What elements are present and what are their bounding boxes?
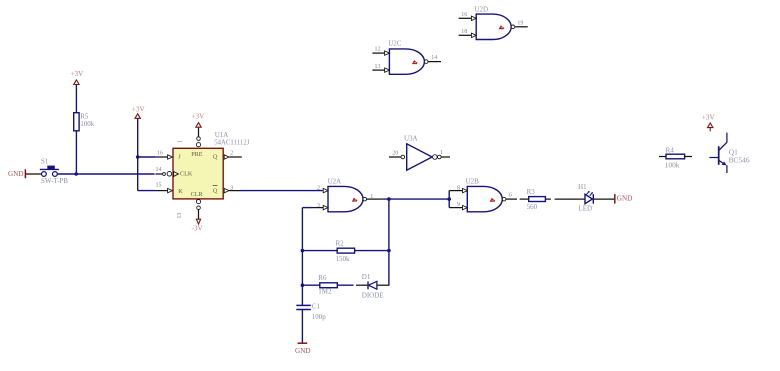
svg-text:+3V: +3V — [702, 114, 716, 122]
svg-text:BC546: BC546 — [729, 156, 750, 165]
svg-text:Q: Q — [213, 187, 218, 194]
svg-text:3: 3 — [230, 185, 233, 191]
svg-text:R3: R3 — [527, 188, 536, 196]
nand U2A body — [317, 178, 373, 212]
svg-text:16: 16 — [461, 12, 467, 18]
wire +3V to R5 — [75, 85, 77, 113]
svg-text:9: 9 — [457, 202, 460, 208]
power -3V below CLR — [192, 219, 204, 232]
pin 14 CLK — [155, 167, 178, 176]
power GND flag right — [615, 194, 633, 204]
wire R3 to LED — [545, 198, 584, 200]
pin U2A out — [367, 198, 383, 200]
wire U2B input split bar — [449, 191, 462, 208]
svg-text:Q: Q — [213, 153, 218, 160]
pin U2D in 16 — [459, 17, 472, 19]
wire R6 to D1 — [337, 284, 367, 286]
resistor R4 100k — [659, 146, 692, 169]
wire feedback vertical — [388, 199, 390, 285]
capacitor C1 100p — [296, 302, 326, 320]
wire R5 to junction — [75, 131, 77, 174]
wire U2A pin3 left and down — [302, 208, 323, 306]
svg-text:CLR: CLR — [191, 191, 204, 198]
svg-text:16: 16 — [157, 151, 163, 157]
svg-text:12: 12 — [375, 46, 381, 52]
svg-text:1M2: 1M2 — [318, 288, 332, 296]
wire LED to GND — [594, 198, 614, 200]
pin 15 K — [155, 182, 172, 193]
nand U2B body — [457, 178, 512, 212]
svg-text:15: 15 — [156, 182, 162, 188]
power GND flag bottom — [295, 343, 311, 355]
svg-text:8: 8 — [457, 185, 460, 191]
wire D1 to feedback vertical — [377, 284, 390, 286]
svg-text:R2: R2 — [336, 239, 345, 247]
power +3V right — [702, 114, 716, 132]
pin 1 PRE — [178, 127, 201, 147]
wire to J pin — [138, 156, 156, 158]
wire U2A out to U2B — [382, 198, 449, 200]
power +3V above PRE — [192, 112, 206, 127]
nand U2D body — [461, 5, 523, 39]
svg-text:14: 14 — [431, 55, 437, 61]
pin 16 J — [155, 151, 172, 160]
svg-text:560: 560 — [527, 203, 538, 211]
svg-text:K: K — [178, 188, 183, 195]
junction R6 left node — [301, 283, 305, 287]
wire Qbar to U2A pin2 — [241, 190, 323, 192]
wire to K pin — [138, 190, 156, 192]
svg-text:-3V: -3V — [192, 225, 204, 233]
svg-text:100k: 100k — [80, 120, 95, 128]
led H1 LED — [578, 183, 593, 212]
svg-text:U1A: U1A — [215, 131, 229, 139]
svg-text:6: 6 — [509, 192, 512, 198]
svg-text:54AC11112J: 54AC11112J — [214, 140, 249, 147]
svg-text:+3V: +3V — [71, 70, 85, 78]
pin 2 Q — [224, 150, 242, 159]
wire R6 left — [302, 284, 319, 286]
svg-text:1: 1 — [178, 140, 184, 143]
junction R2 right node — [387, 249, 391, 253]
svg-text:U2B: U2B — [466, 178, 480, 186]
svg-text:GND: GND — [617, 195, 633, 203]
pin U3A out 1 — [433, 155, 450, 160]
nand U2C body — [375, 40, 438, 75]
svg-text:D1: D1 — [362, 273, 371, 281]
wire S1 to CLK feed — [57, 173, 154, 175]
svg-text:S1: S1 — [41, 157, 49, 165]
power GND flag left — [8, 169, 25, 178]
junction J row node — [136, 155, 140, 159]
svg-text:18: 18 — [461, 29, 467, 35]
pin U2B out — [506, 198, 517, 200]
resistor R3 560 — [527, 188, 546, 211]
svg-text:CLK: CLK — [180, 170, 193, 177]
switch S1 SW-T-PB — [40, 157, 69, 185]
transistor Q1 BC546 — [709, 133, 749, 173]
svg-text:R6: R6 — [318, 274, 327, 282]
wire R2 right — [355, 250, 389, 252]
buffer U3A body — [392, 135, 443, 171]
svg-text:14: 14 — [156, 167, 162, 173]
svg-text:2: 2 — [317, 186, 320, 192]
junction feedback node — [387, 197, 391, 201]
svg-text:DIODE: DIODE — [362, 291, 384, 299]
wire +3V vertical to J/K rows — [137, 118, 139, 190]
svg-text:2: 2 — [230, 150, 233, 156]
wire to R3 — [520, 198, 529, 200]
svg-text:150k: 150k — [336, 255, 351, 263]
svg-text:+3V: +3V — [132, 105, 146, 113]
pin U2D out 19 — [515, 26, 528, 28]
pin U3A in 20 — [389, 155, 405, 159]
svg-text:100k: 100k — [665, 161, 680, 170]
pin 3 Qbar — [224, 185, 240, 193]
pin U2C in 13 — [372, 69, 384, 71]
power +3V feeding J/K — [132, 105, 146, 118]
svg-text:U3A: U3A — [404, 135, 418, 143]
power +3V above R5 — [71, 70, 85, 84]
diode D1 DIODE — [362, 273, 384, 299]
svg-text:19: 19 — [517, 20, 523, 26]
pin U2C in 12 — [372, 52, 384, 54]
pin 13 CLR — [177, 200, 201, 220]
resistor R6 1M2 — [318, 274, 337, 296]
svg-text:GND: GND — [295, 347, 311, 355]
svg-text:C1: C1 — [312, 302, 321, 310]
svg-text:R4: R4 — [666, 146, 675, 154]
svg-text:SW-T-PB: SW-T-PB — [41, 177, 68, 185]
wire R2 left — [302, 250, 337, 252]
svg-text:LED: LED — [579, 204, 593, 212]
svg-text:13: 13 — [375, 64, 381, 70]
junction S1/R5 node — [74, 172, 78, 176]
svg-text:13: 13 — [177, 213, 183, 219]
resistor R5 100k — [74, 112, 95, 130]
svg-text:100p: 100p — [312, 313, 327, 321]
svg-text:U2D: U2D — [474, 5, 488, 13]
resistor R2 150k — [336, 239, 355, 263]
svg-text:U2A: U2A — [328, 178, 342, 186]
wire GND to S1 — [26, 173, 41, 175]
svg-text:GND: GND — [8, 170, 24, 178]
svg-text:PRE: PRE — [191, 151, 203, 158]
pin U2C out 14 — [428, 61, 441, 63]
pin U2D in 18 — [459, 34, 472, 36]
wire C1 to GND — [301, 310, 303, 343]
svg-text:H1: H1 — [578, 183, 587, 191]
op U1A 54AC11112J J-K flip-flop body — [173, 131, 250, 199]
svg-text:+3V: +3V — [192, 112, 206, 120]
junction U2B input split — [447, 197, 451, 201]
junction R2 left node — [301, 249, 305, 253]
svg-text:20: 20 — [392, 150, 398, 156]
svg-text:U2C: U2C — [388, 40, 402, 48]
